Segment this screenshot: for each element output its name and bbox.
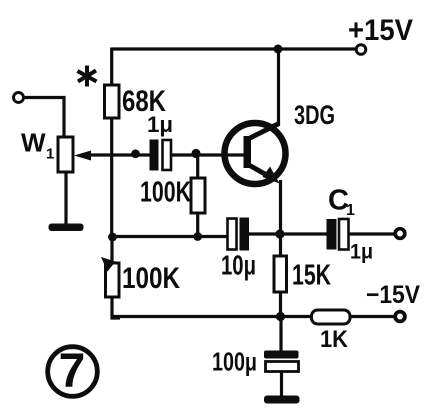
svg-text:1: 1	[346, 202, 355, 219]
wire 68K top	[110, 48, 113, 86]
arrow mark on 100K left	[101, 257, 116, 272]
wire base node down	[196, 155, 199, 178]
wire C1 to output	[349, 232, 395, 235]
wire cap to base	[171, 153, 244, 156]
transistor Q1 emitter stroke	[248, 165, 272, 179]
svg-text:+15V: +15V	[348, 14, 413, 47]
capacitor 10u left plate	[228, 219, 237, 250]
transistor Q1 emitter arrowhead	[263, 167, 280, 184]
capacitor 100u top plate	[264, 351, 299, 359]
terminal input	[14, 93, 24, 103]
terminal -15V	[395, 312, 405, 322]
resistor 1K	[312, 310, 351, 324]
wire input to pot	[23, 98, 64, 138]
capacitor 1u left plate	[150, 140, 159, 171]
svg-text:7: 7	[59, 345, 86, 398]
ground below W1	[49, 224, 84, 232]
node bottom rail junction	[276, 312, 285, 321]
svg-text:1: 1	[46, 146, 54, 163]
transistor Q1 circle	[225, 123, 286, 184]
node top rail junction	[274, 45, 283, 54]
capacitor 10u right plate	[240, 218, 250, 251]
wiper arrow of W1	[74, 151, 91, 161]
wire collector to rail	[277, 49, 280, 126]
capacitor C1 right plate	[339, 219, 349, 250]
svg-text:1μ: 1μ	[350, 241, 373, 264]
node left column junction	[108, 233, 117, 242]
terminal output	[395, 229, 405, 239]
node emitter junction	[275, 229, 284, 238]
wire 100K middle down	[196, 213, 199, 237]
svg-text:100K: 100K	[122, 262, 180, 295]
svg-text:100K: 100K	[140, 177, 191, 209]
svg-text:100μ: 100μ	[212, 347, 257, 377]
wire emitter down	[279, 180, 282, 256]
wire 68K bottom to lower node	[110, 118, 113, 237]
wire left column lower	[110, 237, 113, 263]
capacitor 1u right plate	[163, 140, 172, 170]
transistor Q1 collector stroke	[248, 124, 278, 139]
wire 10u to emitter node	[249, 232, 327, 235]
wire feedback row	[112, 235, 228, 238]
svg-text:−15V: −15V	[366, 281, 420, 309]
wire bottom rail	[112, 315, 312, 318]
wire 1K to terminal	[350, 315, 394, 318]
node wiper junction	[131, 149, 140, 158]
wire 15K to bottom rail	[279, 292, 282, 317]
asterisk mark	[78, 66, 97, 87]
ground below 100u	[264, 396, 300, 404]
potentiometer W1	[58, 137, 73, 172]
terminal +15V	[356, 45, 366, 55]
wire wiper to cap	[88, 153, 150, 156]
wire bottom node to 100u	[279, 317, 282, 352]
svg-text:1μ: 1μ	[147, 112, 173, 137]
wire 100K left to bottom rail	[112, 297, 120, 318]
resistor 100K left	[106, 263, 120, 297]
capacitor C1 left plate	[327, 219, 337, 250]
node 100K bottom junction	[193, 232, 202, 241]
wire pot to ground	[64, 172, 67, 224]
resistor 100K middle	[191, 178, 205, 213]
resistor 15K	[274, 256, 287, 292]
wire 100u to ground	[280, 372, 283, 397]
svg-text:3DG: 3DG	[294, 100, 335, 130]
wire top rail	[111, 47, 356, 50]
svg-text:15K: 15K	[292, 259, 331, 291]
resistor R 68K	[105, 85, 120, 118]
svg-text:W: W	[21, 128, 46, 158]
node base junction	[191, 149, 200, 158]
figure number circle 7	[48, 347, 98, 397]
transistor Q1 base bar	[244, 136, 252, 168]
svg-text:10μ: 10μ	[221, 250, 256, 281]
capacitor 100u bottom plate	[266, 362, 299, 372]
svg-text:1K: 1K	[320, 326, 349, 353]
